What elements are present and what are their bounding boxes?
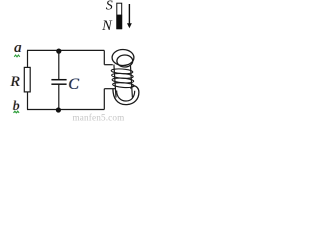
wire left vertical upper (node a to resistor) — [27, 50, 29, 67]
label C — [68, 76, 80, 93]
inductor coil top turn inner ellipse — [117, 55, 133, 67]
svg-text:manfen5.com: manfen5.com — [73, 112, 125, 122]
svg-text:R: R — [9, 73, 20, 90]
wire top horizontal a to right corner — [27, 49, 104, 51]
wire capacitor top lead — [58, 50, 60, 79]
wire stub to coil top — [104, 64, 113, 66]
svg-text:a: a — [14, 40, 22, 56]
green squiggle under b — [14, 111, 20, 113]
arrow head — [127, 23, 132, 28]
svg-text:C: C — [68, 76, 79, 93]
wire left vertical lower (resistor to node b) — [27, 92, 29, 110]
label b — [12, 98, 20, 113]
svg-text:S: S — [106, 0, 113, 14]
svg-text:N: N — [101, 18, 113, 34]
inductor coil turn ring 3 — [112, 77, 134, 83]
wire right vertical lower — [103, 89, 105, 110]
arrow shaft (magnet motion downward) — [128, 4, 130, 24]
inductor coil body right side — [130, 65, 132, 98]
inductor coil top turn outer ellipse — [112, 50, 134, 66]
magnet N pole black fill — [116, 15, 122, 29]
wire stub to coil bottom — [104, 88, 116, 90]
svg-text:b: b — [13, 98, 20, 113]
inductor coil turn ring 1 — [111, 68, 133, 74]
inductor coil bottom turn inner arc — [117, 91, 135, 102]
inductor coil turn ring 2 — [111, 73, 133, 79]
capacitor C bottom plate — [51, 83, 66, 85]
wire capacitor bottom lead — [58, 84, 60, 109]
label a — [14, 40, 23, 56]
node junction dot top — [56, 49, 61, 54]
inductor coil bottom turn outer ring — [113, 86, 139, 105]
inductor coil turn ring 4 — [112, 82, 134, 88]
label R — [9, 73, 21, 90]
wire bottom horizontal b to right corner — [27, 109, 104, 111]
wire right vertical upper — [103, 50, 105, 64]
green squiggle under a — [14, 55, 20, 57]
inductor coil body left side — [114, 65, 116, 98]
node junction dot bottom — [56, 107, 61, 112]
capacitor C top plate — [51, 79, 66, 81]
magnet bar outline (S pole white) — [117, 3, 122, 29]
resistor R — [24, 67, 30, 92]
